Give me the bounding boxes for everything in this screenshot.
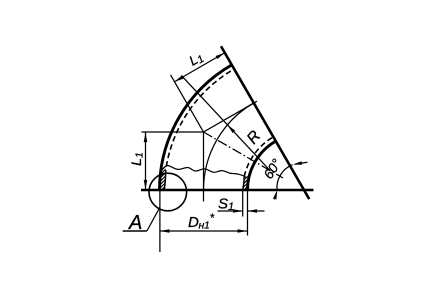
angle arrow tail bottom: [274, 192, 277, 199]
angle 60 arc arrow bottom: [273, 190, 277, 199]
dimension L1 (left) arrow bottom: [144, 180, 148, 190]
axis centreline toward vertex (dash-dot): [204, 132, 284, 178]
dimension L1 (left) arrow top: [144, 133, 148, 143]
angle 60 arc arrow top: [293, 161, 302, 165]
extension line from centre parallel to slanted face (for top L1): [171, 75, 204, 132]
bore edge solid below break (right wall inner edge): [243, 177, 245, 191]
centreline arc of bend: [204, 103, 254, 190]
dimension L1 (left) line: [145, 132, 147, 190]
extrados outer arc: [160, 65, 232, 190]
radius R arrowhead: [227, 125, 235, 133]
angle 60 dimension arc: [277, 165, 293, 191]
break (wavy) line across elbow: [160, 166, 246, 178]
bore hidden line inner (dashed): [244, 137, 273, 177]
intrados inner arc: [248, 141, 276, 190]
dimension L1 (top) line: [175, 53, 225, 82]
dimension S1 shelf line: [218, 210, 243, 212]
horizontal extension line from centre (for left L1): [142, 131, 204, 133]
dimension S1 right line: [248, 210, 265, 212]
detail circle A: [149, 173, 187, 211]
radius R leader line: [181, 75, 270, 170]
extension line below bore right (S1): [242, 190, 244, 217]
upper end axis (30 deg): [204, 101, 258, 132]
dimension L1 (top) arrow left: [175, 75, 184, 81]
dimension Dн1 arrow right: [238, 229, 248, 233]
bottom face line / baseline extended to vertex: [141, 189, 314, 191]
detail A underline: [123, 230, 147, 232]
detail A leader line: [147, 207, 160, 231]
dimension S1 arrow right: [248, 209, 258, 213]
bore hidden line outer (dashed): [166, 69, 234, 166]
svg-text:A: A: [128, 212, 142, 234]
vertical axis of bottom end: [203, 132, 205, 202]
dimension Dн1 line: [160, 230, 248, 232]
dimension S1 arrow left: [233, 209, 243, 213]
dimension Dн1 arrow left: [160, 229, 170, 233]
dimension L1 (top) arrow right: [216, 53, 225, 59]
slanted face line at 60 degrees through vertex: [221, 46, 309, 199]
extension line below right wall (S1 and Dн1): [247, 190, 249, 236]
bore edge solid below break (left wall inner edge): [164, 170, 165, 190]
angle arrow tail top: [295, 162, 308, 164]
extension line below left wall (Dн1): [159, 190, 161, 252]
